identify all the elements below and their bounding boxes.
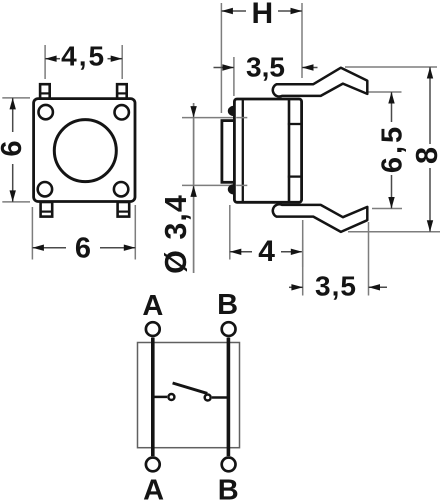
leg pin bottom-left (top view) [41,202,53,217]
terminal A circle (top) [146,322,160,336]
mounting pin circle bottom-right [114,182,128,196]
wire to left contact [153,396,167,399]
svg-text:4,5: 4,5 [61,40,106,71]
dimension 3,5 (pin tip, bottom right) [289,222,387,302]
dimension diameter 3,4 (button) [159,103,248,274]
button collar fillet top (side view) [228,106,240,116]
dimension 4 (bottom of side view) [230,205,303,268]
switch lever [173,383,208,393]
button collar fillet bottom (side view) [228,184,240,194]
dimension 3,5 (body height, top) [214,52,318,96]
svg-text:6: 6 [0,140,28,156]
schematic enclosure box [138,343,240,448]
svg-text:A: A [142,290,163,322]
svg-text:B: B [217,289,238,321]
svg-text:A: A [143,474,164,500]
body / column divider line (side view) [288,100,291,202]
svg-text:3,5: 3,5 [246,52,285,83]
switch body (side view) [234,99,301,202]
leg pin top-right (top view) [117,84,127,99]
svg-text:8: 8 [409,147,440,164]
flange inner line (side view) [242,100,244,202]
dimension 6 (left, body height) [0,98,30,202]
switch body (top view) [34,99,135,202]
terminal B circle (bottom) [222,458,236,472]
button circle (top view) [54,120,116,182]
leg pin top-left (top view) [40,84,50,99]
terminal A circle (bottom) [146,458,160,472]
right contact circle [205,395,211,401]
mounting pin circle top-right [115,105,129,119]
wire B vertical [227,338,231,456]
mounting pin circle bottom-left [38,182,52,196]
mounting pin circle top-left [39,105,53,119]
upper bent leg (side view) [273,68,368,97]
leg pin bottom-right (top view) [118,202,130,217]
diameter 3,4 extension overlays inside body [236,117,247,119]
svg-text:4: 4 [258,235,275,268]
wire A vertical [151,338,155,456]
svg-text:3,5: 3,5 [315,271,357,302]
dimension 8 (overall pin span) [345,67,440,232]
dimension 6 (bottom, body width) [32,205,135,265]
svg-text:H: H [251,0,273,30]
lower bent leg (side view) [273,204,368,232]
dimension 6,5 (pin span) [367,92,408,209]
dimension 4,5 (top pin spacing) [45,40,122,79]
column divider lower [289,175,302,177]
wire to right contact [212,396,228,399]
svg-text:Ø 3,4: Ø 3,4 [159,194,193,274]
svg-text:B: B [218,474,239,500]
column divider upper [289,123,302,125]
terminal B circle (top) [222,322,236,336]
svg-text:6: 6 [75,233,91,265]
actuator button (side view) [222,121,235,183]
svg-text:6,5: 6,5 [376,124,408,173]
dimension H (overall height) [221,0,302,113]
left contact circle [168,394,174,400]
